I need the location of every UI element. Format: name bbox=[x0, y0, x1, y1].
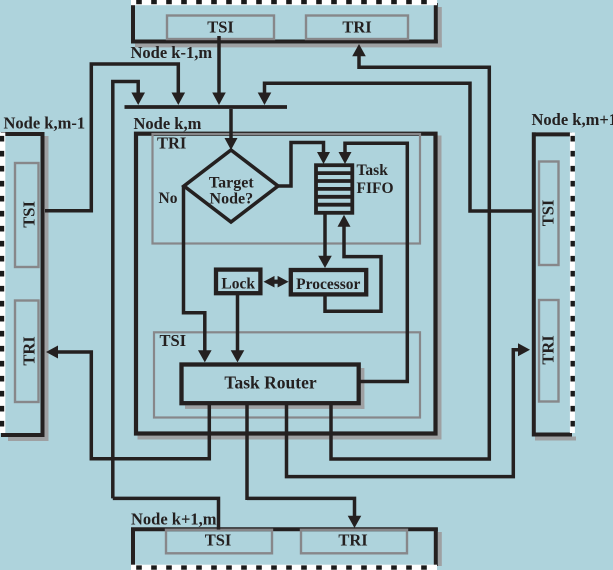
wire Lock to router bbox=[231, 294, 245, 362]
svg-text:No: No bbox=[159, 190, 178, 207]
node box Node k+1,m (bottom) bbox=[131, 528, 442, 570]
svg-text:TSI: TSI bbox=[207, 18, 234, 37]
wire diamond yes-branch to FIFO bbox=[277, 143, 330, 187]
wire left TSI to bus bbox=[45, 64, 185, 211]
wire diamond No-branch to router bbox=[184, 186, 212, 362]
svg-text:Node k-1,m: Node k-1,m bbox=[131, 43, 213, 62]
wire Processor loop to FIFO bbox=[325, 215, 381, 311]
wire right TSI to bus bbox=[258, 83, 532, 211]
decision diamond Target Node? bbox=[184, 150, 278, 222]
TSI box (right node) bbox=[539, 162, 559, 266]
node box Node k,m (center) bbox=[136, 134, 442, 440]
svg-text:TRI: TRI bbox=[342, 18, 371, 37]
wire router to top TRI bbox=[331, 44, 489, 459]
TRI box (left node) bbox=[15, 301, 39, 403]
double arrow Lock-Processor bbox=[264, 276, 289, 288]
TSI box (left node) bbox=[15, 163, 39, 267]
TRI box (top node) bbox=[306, 16, 408, 40]
svg-text:Node k+1,m: Node k+1,m bbox=[131, 509, 217, 528]
svg-text:TRI: TRI bbox=[539, 335, 558, 364]
svg-text:TRI: TRI bbox=[157, 134, 186, 153]
node box Node k-1,m (top) bbox=[131, 0, 442, 48]
TRI region (gray) bbox=[153, 134, 421, 244]
svg-text:TRI: TRI bbox=[19, 336, 38, 365]
node box Node k,m-1 (left) bbox=[0, 132, 49, 441]
svg-text:Lock: Lock bbox=[221, 275, 255, 292]
wire bus to diamond bbox=[225, 109, 238, 150]
svg-text:TSI: TSI bbox=[160, 331, 187, 350]
wire router loopback to FIFO bbox=[339, 143, 408, 381]
svg-text:Target: Target bbox=[209, 174, 254, 191]
svg-text:Processor: Processor bbox=[296, 276, 360, 293]
wire bottom TSI to bus branch bbox=[113, 498, 219, 529]
wire top TSI to bus bbox=[212, 36, 226, 105]
svg-text:TSI: TSI bbox=[19, 201, 38, 228]
Task Router box bbox=[182, 365, 365, 410]
Lock box bbox=[216, 270, 260, 294]
svg-text:Node k,m: Node k,m bbox=[134, 114, 202, 133]
svg-text:Task: Task bbox=[357, 162, 389, 179]
bus (horizontal line below top node) bbox=[125, 105, 288, 109]
wire bottom TSI loop to bus bbox=[113, 82, 145, 499]
Processor box bbox=[291, 270, 366, 294]
svg-text:TSI: TSI bbox=[539, 200, 558, 227]
TRI box (bottom node) bbox=[301, 530, 407, 554]
TSI box (bottom node) bbox=[166, 530, 272, 554]
svg-text:Node k,m+1: Node k,m+1 bbox=[532, 110, 613, 129]
wire router to bottom TRI and bus loop bbox=[247, 403, 361, 528]
wire router to right TRI bbox=[287, 343, 531, 476]
svg-text:FIFO: FIFO bbox=[357, 180, 394, 197]
wire router to left TRI bbox=[46, 346, 209, 459]
svg-text:Node?: Node? bbox=[210, 191, 254, 208]
svg-text:TSI: TSI bbox=[205, 530, 232, 549]
node box Node k,m+1 (right) bbox=[532, 132, 576, 440]
Task FIFO stack bbox=[316, 162, 394, 213]
wire FIFO to Processor bbox=[318, 213, 332, 268]
svg-text:Node k,m-1: Node k,m-1 bbox=[4, 113, 86, 132]
TRI box (right node) bbox=[539, 300, 559, 402]
svg-text:TRI: TRI bbox=[338, 530, 367, 549]
svg-text:Task Router: Task Router bbox=[224, 372, 316, 392]
TSI region (gray) bbox=[154, 331, 420, 418]
TSI box (top node) bbox=[167, 16, 274, 40]
